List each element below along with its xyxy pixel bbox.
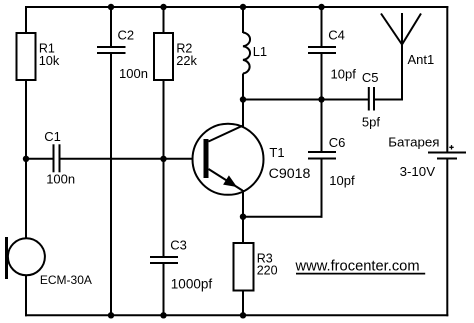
- label R1 10k: [39, 41, 60, 68]
- node C4 top: [318, 4, 324, 10]
- wire left rail lower: [25, 275, 27, 316]
- capacitor C1: [54, 144, 60, 172]
- svg-text:T1: T1: [269, 145, 284, 160]
- node collector junction: [240, 96, 246, 102]
- svg-text:220: 220: [257, 263, 278, 277]
- capacitor C2: [97, 47, 126, 53]
- svg-text:C1: C1: [44, 129, 61, 144]
- wire mid rail right: [375, 99, 403, 101]
- capacitor C3: [150, 257, 178, 263]
- wire emitter rail: [243, 216, 323, 218]
- node C3 bottom: [160, 312, 166, 318]
- wire left rail upper: [25, 6, 27, 33]
- inductor L1: [243, 33, 250, 74]
- svg-text:C3: C3: [170, 237, 187, 252]
- wire C4 bottom to mid rail: [321, 54, 323, 100]
- svg-text:1000pf: 1000pf: [171, 277, 213, 292]
- svg-text:10k: 10k: [39, 53, 60, 68]
- svg-text:C5: C5: [362, 70, 379, 85]
- svg-text:10pf: 10pf: [329, 173, 355, 188]
- wire C2 branch upper: [110, 7, 112, 47]
- node L1 top: [240, 4, 246, 10]
- wire mid rail left: [243, 99, 368, 101]
- svg-text:ECM-30A: ECM-30A: [40, 273, 92, 287]
- resistor R1: [17, 33, 36, 80]
- svg-text:C6: C6: [329, 135, 346, 150]
- wire R2-C3 branch: [163, 80, 165, 257]
- svg-text:100n: 100n: [119, 66, 148, 81]
- wire base lead left: [26, 158, 53, 160]
- wire collector lead: [242, 100, 244, 128]
- wire bottom rail: [25, 314, 448, 316]
- node base-left junction: [23, 156, 29, 162]
- node R3 bottom: [240, 312, 246, 318]
- wire C2 branch lower: [110, 54, 112, 316]
- node emitter junction: [240, 214, 246, 220]
- node R2 base junction: [160, 156, 166, 162]
- node C4 bottom: [318, 96, 324, 102]
- svg-text:Батарея: Батарея: [388, 134, 439, 149]
- wire base lead right: [60, 158, 205, 160]
- svg-text:www.frocenter.com: www.frocenter.com: [295, 258, 420, 274]
- svg-text:L1: L1: [253, 44, 267, 59]
- svg-text:C9018: C9018: [269, 166, 311, 182]
- svg-text:3-10V: 3-10V: [400, 164, 436, 179]
- wire left rail middle: [25, 80, 27, 239]
- wire L1 top lead: [242, 7, 244, 33]
- wire C4 branch upper: [321, 7, 323, 47]
- wire C6 top lead: [321, 100, 323, 152]
- svg-text:10pf: 10pf: [331, 67, 357, 82]
- transistor T1: [193, 124, 264, 195]
- svg-text:C2: C2: [118, 27, 135, 42]
- wire www underline: [296, 273, 425, 275]
- wire C6 bottom lead: [321, 159, 323, 218]
- label R2 22k: [176, 41, 197, 68]
- svg-text:5pf: 5pf: [362, 114, 380, 129]
- svg-text:100n: 100n: [46, 172, 75, 187]
- battery: [428, 153, 466, 159]
- node R2 top: [160, 4, 166, 10]
- wire antenna feed: [401, 45, 403, 101]
- capacitor C4: [308, 47, 336, 53]
- svg-text:C4: C4: [328, 27, 345, 42]
- resistor R3: [234, 243, 254, 291]
- wire R3 top lead: [242, 217, 244, 243]
- svg-text:Ant1: Ant1: [408, 52, 435, 67]
- microphone ECM-30A: [5, 237, 45, 279]
- resistor R2: [154, 33, 173, 80]
- wire right rail lower: [446, 159, 448, 316]
- wire C3 bottom: [163, 264, 165, 316]
- wire R3 bottom lead: [242, 291, 244, 316]
- wire L1 bottom lead: [242, 74, 244, 100]
- capacitor C5: [369, 87, 374, 111]
- node C2 top: [108, 4, 114, 10]
- wire emitter lead: [242, 190, 244, 217]
- wire R2 branch upper: [163, 7, 165, 33]
- label R3 220: [257, 252, 278, 278]
- label battery plus: [449, 145, 453, 149]
- wire top rail: [26, 6, 448, 8]
- svg-text:22k: 22k: [176, 53, 197, 68]
- node C2 bottom: [108, 312, 114, 318]
- wire right rail upper: [446, 6, 448, 152]
- capacitor C6: [308, 152, 336, 159]
- antenna Ant1: [381, 13, 421, 45]
